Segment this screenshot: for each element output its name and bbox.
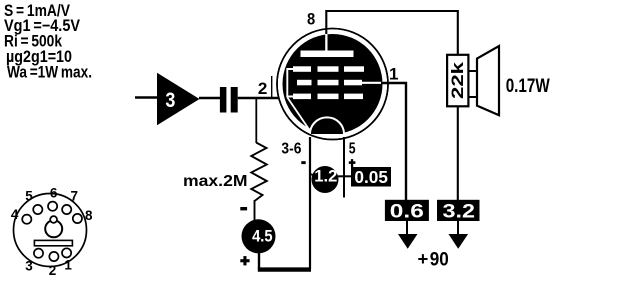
envelope redrawn over dome — [277, 29, 388, 140]
svg-text:6: 6 — [50, 185, 58, 200]
filament bar — [34, 240, 72, 245]
polarity plus (4.5) — [240, 259, 249, 262]
wire pin 8 (anode) to top rail — [326, 11, 458, 56]
polarity minus (4.5) — [240, 207, 247, 210]
anode bar — [301, 51, 354, 58]
grid rail — [287, 69, 293, 97]
socket pin 5 — [33, 205, 42, 214]
svg-text:7: 7 — [71, 189, 79, 204]
wire 22k to 3.2 box — [457, 106, 459, 201]
battery 4.5 (grid bias) — [242, 219, 276, 253]
screen lead inside (to pin 1) — [356, 82, 383, 84]
polarity minus (1.2 cell) — [301, 161, 305, 164]
rail to cathode diagonal — [287, 98, 310, 132]
grid row 1 — [293, 66, 311, 72]
socket pin 6 — [48, 202, 57, 211]
wire 3-6 to 1.2 cell — [310, 174, 313, 176]
capacitor C1 — [220, 87, 227, 113]
grid row 3 — [293, 94, 311, 100]
svg-text:2: 2 — [258, 79, 267, 98]
svg-text:1: 1 — [64, 257, 72, 272]
svg-text:Wa =1W max.: Wa =1W max. — [7, 64, 92, 82]
lead resistor to 4.5 battery — [254, 200, 256, 221]
cathode dome — [310, 117, 344, 134]
arrow anode current — [457, 221, 459, 236]
svg-text:8: 8 — [307, 11, 315, 29]
wire pin 1 (screen) to 0.6 box — [381, 83, 406, 201]
wire triangle to capacitor — [199, 97, 221, 99]
svg-text:4: 4 — [11, 207, 19, 222]
battery 1.2 (filament cell) — [312, 166, 339, 193]
svg-text:+: + — [418, 248, 429, 269]
wire cathode/filament pin 3-6 down to bus — [309, 137, 311, 269]
svg-text:0.17W: 0.17W — [506, 76, 550, 97]
center spigot — [45, 220, 62, 237]
pin8 lead inside — [325, 34, 327, 51]
capacitor 0.05 — [351, 167, 391, 187]
wire junction to grid resistor — [255, 98, 257, 143]
arrow screen current — [406, 221, 408, 236]
svg-text:2: 2 — [49, 263, 57, 278]
svg-text:5: 5 — [349, 140, 356, 157]
resistor 22k — [447, 55, 468, 107]
svg-text:8: 8 — [85, 208, 93, 223]
current box 0.6 — [385, 200, 429, 221]
grid row 2 — [297, 80, 312, 86]
wire 1.2 to 0.05 — [338, 175, 352, 177]
current box 3.2 — [437, 200, 480, 221]
svg-text:0.05: 0.05 — [354, 167, 388, 187]
socket pin 8 — [73, 214, 82, 223]
svg-text:5: 5 — [25, 189, 33, 204]
svg-text:4.5: 4.5 — [252, 228, 273, 246]
socket pin 4 — [22, 215, 31, 224]
svg-text:3: 3 — [25, 258, 33, 273]
svg-text:0.6: 0.6 — [390, 201, 424, 223]
socket pin 1 — [62, 248, 71, 257]
speaker LS — [469, 70, 478, 72]
wire pin 5 — [343, 137, 345, 198]
envelope — [277, 29, 388, 140]
svg-text:max.2M: max.2M — [183, 173, 248, 190]
svg-text:90: 90 — [430, 248, 449, 270]
resistor max 2M (grid leak) — [251, 143, 266, 201]
svg-text:3.2: 3.2 — [443, 201, 476, 223]
wire battery to bus — [258, 252, 260, 269]
socket pin 2 — [49, 252, 58, 261]
bus wire (bottom) — [258, 267, 311, 271]
tube V1 — [277, 29, 388, 140]
svg-text:3-6: 3-6 — [281, 140, 301, 157]
electrode disc — [283, 34, 383, 134]
tick mark at grid wire — [271, 76, 273, 98]
polarity plus (1.2 cell) — [349, 161, 356, 164]
socket pin 7 — [62, 205, 71, 214]
wire capacitor to grid (pin 2) — [238, 97, 283, 100]
svg-text:1: 1 — [389, 64, 398, 83]
socket pin 3 — [34, 249, 43, 258]
socket outline — [14, 194, 87, 267]
wire input — [135, 96, 158, 99]
svg-text:3: 3 — [165, 89, 175, 112]
input terminal 3 (triangle) — [157, 73, 200, 126]
svg-text:22k: 22k — [448, 61, 467, 99]
socket diagram — [11, 185, 93, 278]
svg-text:1.2: 1.2 — [314, 167, 337, 186]
